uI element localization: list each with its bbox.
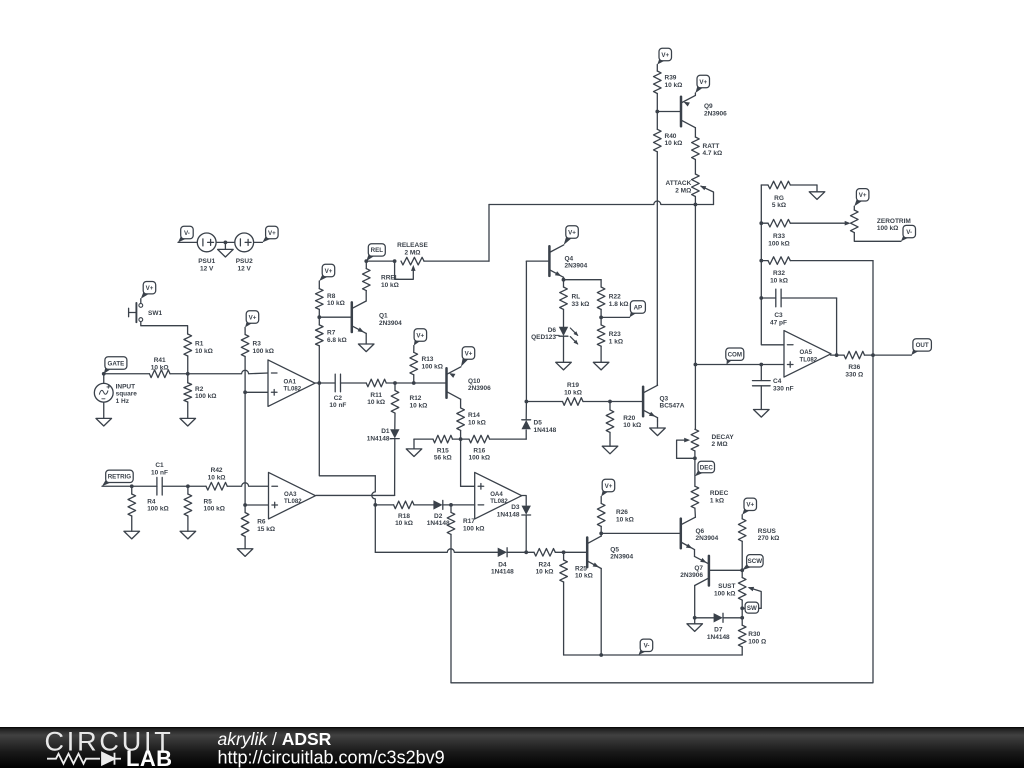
svg-text:10 kΩ: 10 kΩ xyxy=(575,573,593,580)
svg-text:V+: V+ xyxy=(605,483,613,490)
wire xyxy=(140,299,142,304)
svg-text:R8: R8 xyxy=(327,293,336,300)
svg-text:10 kΩ: 10 kΩ xyxy=(564,389,582,396)
wire xyxy=(816,185,818,192)
transistor Q7 2N3906 xyxy=(680,556,709,586)
svg-text:R14: R14 xyxy=(468,412,480,419)
ground xyxy=(687,624,703,632)
svg-text:2 MΩ: 2 MΩ xyxy=(675,187,691,194)
svg-text:D7: D7 xyxy=(714,627,723,634)
wire xyxy=(525,261,527,401)
wire to OA3 inverting input with hop xyxy=(227,483,268,487)
svg-text:ATTACK: ATTACK xyxy=(666,180,692,187)
svg-text:100 kΩ: 100 kΩ xyxy=(195,393,216,400)
svg-text:12 V: 12 V xyxy=(238,266,252,273)
wire xyxy=(563,552,565,560)
node junction xyxy=(562,550,566,554)
svg-text:QED123: QED123 xyxy=(531,334,556,341)
svg-text:D1: D1 xyxy=(381,428,390,435)
resistor R30 100 xyxy=(738,625,766,647)
wire xyxy=(741,570,743,577)
svg-text:DECAY: DECAY xyxy=(712,434,735,441)
wire xyxy=(694,128,696,137)
transistor Q1 2N3904 xyxy=(352,301,402,333)
AP node label xyxy=(630,301,646,318)
resistor R8 10k xyxy=(316,289,345,310)
svg-text:V-: V- xyxy=(184,230,190,237)
wire R17 to feedback rail xyxy=(450,534,452,682)
svg-text:SCW: SCW xyxy=(748,558,763,565)
node junction xyxy=(693,456,697,460)
wire xyxy=(216,241,235,243)
wire xyxy=(694,508,697,517)
svg-text:5 kΩ: 5 kΩ xyxy=(772,202,786,209)
wire xyxy=(187,486,189,494)
potentiometer RELEASE 2M xyxy=(395,242,429,279)
transistor Q6 2N3904 xyxy=(681,517,719,549)
svg-text:V+: V+ xyxy=(416,332,424,339)
svg-text:10 kΩ: 10 kΩ xyxy=(616,516,634,523)
svg-text:R7: R7 xyxy=(327,330,336,337)
svg-text:LAB: LAB xyxy=(126,746,172,768)
svg-text:V-: V- xyxy=(906,229,912,236)
resistor R17 100k xyxy=(447,512,484,534)
wire xyxy=(245,504,268,506)
wire xyxy=(318,281,320,289)
wire R33 to ZEROTRIM wiper xyxy=(790,221,850,226)
wire OA4 + input xyxy=(460,439,462,486)
wire xyxy=(244,505,246,513)
svg-text:DEC: DEC xyxy=(700,464,714,471)
svg-text:10 kΩ: 10 kΩ xyxy=(195,348,213,355)
svg-text:330 Ω: 330 Ω xyxy=(845,371,863,378)
resistor R3 100k xyxy=(241,335,274,357)
node junction xyxy=(393,259,397,263)
ground xyxy=(180,531,196,539)
svg-text:1 kΩ: 1 kΩ xyxy=(710,498,724,505)
wire xyxy=(761,222,768,224)
wire xyxy=(394,383,396,391)
svg-text:R19: R19 xyxy=(567,382,579,389)
resistor R41 10k xyxy=(149,357,170,378)
V- supply flag xyxy=(178,226,193,242)
voltage source INPUT square 1Hz xyxy=(94,383,137,405)
svg-text:10 kΩ: 10 kΩ xyxy=(665,140,683,147)
wire Q4 base xyxy=(526,260,549,262)
wire xyxy=(741,600,743,618)
RETRIG node label xyxy=(102,470,133,486)
svg-text:10 kΩ: 10 kΩ xyxy=(665,82,683,89)
svg-text:R18: R18 xyxy=(398,513,410,520)
wire xyxy=(244,392,246,505)
svg-text:V+: V+ xyxy=(146,285,154,292)
diode D1 1N4148 xyxy=(367,428,400,442)
wire xyxy=(460,399,462,408)
svg-text:R32: R32 xyxy=(773,270,785,277)
svg-text:R16: R16 xyxy=(473,447,485,454)
potentiometer ZEROTRIM 100k xyxy=(851,210,911,233)
wire xyxy=(375,504,393,506)
V+ flag at Q4 xyxy=(564,226,579,245)
wire V- rail xyxy=(564,654,743,656)
wire xyxy=(741,647,743,655)
svg-text:TL082: TL082 xyxy=(490,498,508,505)
resistor R6 15k xyxy=(241,513,275,537)
wire xyxy=(790,184,817,186)
resistor RDEC 1k xyxy=(691,486,729,508)
svg-text:RDEC: RDEC xyxy=(710,490,729,497)
wire xyxy=(600,569,602,656)
svg-text:R3: R3 xyxy=(253,341,262,348)
svg-text:10 kΩ: 10 kΩ xyxy=(410,402,428,409)
svg-text:C2: C2 xyxy=(334,395,343,402)
svg-text:R15: R15 xyxy=(437,447,449,454)
node junction xyxy=(364,259,368,263)
resistor RSUS 270k xyxy=(738,519,779,542)
resistor R39 10k xyxy=(654,71,683,94)
svg-text:R23: R23 xyxy=(609,331,621,338)
svg-text:akrylik / ADSR: akrylik / ADSR xyxy=(218,729,332,749)
node junction xyxy=(449,503,453,507)
wire xyxy=(525,430,527,439)
svg-text:R26: R26 xyxy=(616,509,628,516)
op-amp OA4 TL082 xyxy=(475,472,522,519)
wire xyxy=(507,551,526,553)
wire xyxy=(600,526,602,533)
node junction xyxy=(130,484,134,488)
svg-text:RL: RL xyxy=(572,294,581,301)
wire xyxy=(318,309,320,325)
svg-text:Q3: Q3 xyxy=(660,395,669,402)
wire xyxy=(741,541,743,570)
wire xyxy=(244,537,246,549)
node junction xyxy=(317,381,321,385)
svg-text:RETRIG: RETRIG xyxy=(108,474,132,481)
wire xyxy=(141,322,188,334)
resistor R16 100k xyxy=(469,435,490,461)
svg-text:RATT: RATT xyxy=(703,143,720,150)
wire xyxy=(563,277,565,279)
svg-text:Q9: Q9 xyxy=(704,103,713,110)
svg-text:C4: C4 xyxy=(773,378,782,385)
wire xyxy=(831,354,844,356)
ground xyxy=(96,418,112,426)
V+ flag at RSUS xyxy=(742,498,756,515)
V+ flag at Q10 xyxy=(461,347,475,367)
wire xyxy=(760,386,762,410)
node junction xyxy=(871,353,875,357)
svg-text:100 kΩ: 100 kΩ xyxy=(253,348,274,355)
ground xyxy=(602,446,618,454)
resistor RG 5k xyxy=(768,181,790,209)
resistor R36 330 xyxy=(844,351,865,378)
wire xyxy=(741,618,743,625)
logo resistor-diode glyph xyxy=(47,753,121,765)
svg-text:R30: R30 xyxy=(748,631,760,638)
wire xyxy=(365,333,367,344)
wire xyxy=(187,516,189,531)
svg-text:RSUS: RSUS xyxy=(758,528,777,535)
CircuitLab logo text xyxy=(45,727,174,768)
wire Q6 base xyxy=(601,532,681,534)
svg-text:R42: R42 xyxy=(211,467,223,474)
node junction xyxy=(186,484,190,488)
ground xyxy=(180,418,196,426)
svg-text:33 kΩ: 33 kΩ xyxy=(572,301,590,308)
wire xyxy=(742,607,761,609)
node junction xyxy=(525,400,529,404)
svg-text:100 kΩ: 100 kΩ xyxy=(463,525,484,532)
ground xyxy=(406,449,422,457)
resistor R33 100k xyxy=(768,219,790,247)
V+ supply flag xyxy=(262,226,278,242)
wire xyxy=(760,365,762,381)
svg-text:2N3904: 2N3904 xyxy=(696,535,719,542)
LED D6 QED123 xyxy=(531,327,578,363)
potentiometer DECAY 2M xyxy=(677,429,735,458)
ground xyxy=(593,362,609,370)
wire xyxy=(178,241,197,243)
svg-text:47 pF: 47 pF xyxy=(770,319,787,326)
node junction xyxy=(459,437,463,441)
svg-text:INPUT: INPUT xyxy=(116,383,136,390)
node junction xyxy=(694,363,698,367)
capacitor C3 47pF xyxy=(770,289,787,326)
svg-text:100 kΩ: 100 kΩ xyxy=(204,506,225,513)
wire with hop over R40-Q3 line xyxy=(489,201,714,205)
svg-text:R2: R2 xyxy=(195,386,204,393)
node junction xyxy=(694,203,698,207)
svg-text:R33: R33 xyxy=(773,233,785,240)
svg-text:12 V: 12 V xyxy=(200,266,214,273)
svg-text:1N4148: 1N4148 xyxy=(497,512,520,519)
node junction xyxy=(740,606,744,610)
V+ flag at Q9 xyxy=(695,75,709,93)
svg-text:V+: V+ xyxy=(465,350,473,357)
capacitor C4 330nF xyxy=(753,378,794,392)
wire xyxy=(695,364,784,366)
resistor R26 10k xyxy=(597,503,633,526)
svg-text:V-: V- xyxy=(644,643,650,650)
voltage source PSU2 12V xyxy=(235,233,254,273)
wire xyxy=(695,617,714,619)
node junction xyxy=(693,616,697,620)
svg-text:2 MΩ: 2 MΩ xyxy=(712,441,728,448)
node junction xyxy=(759,363,763,367)
node junction xyxy=(599,316,603,320)
svg-text:10 nF: 10 nF xyxy=(329,402,346,409)
resistor R15 56k xyxy=(433,435,453,461)
node junction xyxy=(373,503,377,507)
switch SW1 xyxy=(129,303,163,322)
wire xyxy=(694,365,696,430)
svg-text:D6: D6 xyxy=(548,327,557,334)
wire xyxy=(555,551,587,553)
node junction xyxy=(524,550,528,554)
capacitor C1 10nF xyxy=(151,462,168,495)
svg-text:100 kΩ: 100 kΩ xyxy=(147,506,168,513)
resistor R23 1k xyxy=(597,325,623,346)
V+ flag at ZEROTRIM xyxy=(854,189,869,207)
svg-text:C1: C1 xyxy=(155,462,164,469)
resistor R13 100k xyxy=(410,352,443,375)
wire xyxy=(162,485,188,487)
svg-text:TL082: TL082 xyxy=(800,356,818,363)
node junction xyxy=(243,503,247,507)
svg-text:Q10: Q10 xyxy=(468,378,481,385)
svg-text:10 kΩ: 10 kΩ xyxy=(468,419,486,426)
wire xyxy=(386,382,446,384)
svg-text:V+: V+ xyxy=(249,314,257,321)
potentiometer SUST 100k xyxy=(714,578,761,609)
op-amp OA1 TL082 xyxy=(268,360,315,407)
wire to OA1 inverting input with hop xyxy=(188,370,268,373)
wire xyxy=(341,382,367,384)
diode D2 1N4148 xyxy=(427,500,450,527)
svg-text:6.8 kΩ: 6.8 kΩ xyxy=(327,337,347,344)
wire xyxy=(414,438,433,440)
svg-text:SW1: SW1 xyxy=(148,310,162,317)
wire xyxy=(413,375,415,383)
node junction xyxy=(599,532,603,536)
wire OA3 output to D1 xyxy=(316,494,395,496)
wire xyxy=(365,291,367,301)
svg-text:ZEROTRIM: ZEROTRIM xyxy=(877,218,911,225)
node junction xyxy=(835,353,839,357)
svg-text:1N4148: 1N4148 xyxy=(427,520,450,527)
node junction xyxy=(740,568,744,572)
wire xyxy=(132,485,157,487)
wire xyxy=(104,373,150,375)
wire xyxy=(761,260,768,262)
svg-text:D4: D4 xyxy=(498,561,507,568)
wire xyxy=(600,346,602,362)
wire xyxy=(741,515,743,519)
DEC node label xyxy=(695,461,715,476)
V+ flag at R26 xyxy=(601,479,615,496)
V+ flag at R3 xyxy=(245,311,259,328)
node junction xyxy=(243,390,247,394)
svg-text:REL: REL xyxy=(371,247,384,254)
transistor Q3 BC547A xyxy=(643,385,685,417)
node junction xyxy=(740,616,744,620)
resistor R19 10k xyxy=(563,382,584,405)
svg-text:270 kΩ: 270 kΩ xyxy=(758,535,779,542)
GATE node label xyxy=(104,357,127,374)
svg-text:2N3906: 2N3906 xyxy=(680,572,703,579)
svg-text:Q6: Q6 xyxy=(696,528,705,535)
resistor R2 100k xyxy=(184,383,217,402)
svg-text:R20: R20 xyxy=(623,415,635,422)
svg-text:V+: V+ xyxy=(661,52,669,59)
wire xyxy=(761,184,768,186)
svg-text:10 kΩ: 10 kΩ xyxy=(770,277,788,284)
wire xyxy=(224,242,226,249)
wire xyxy=(365,261,367,269)
wire xyxy=(460,430,462,439)
wire xyxy=(836,298,838,355)
ground xyxy=(809,192,825,200)
wire xyxy=(854,233,901,242)
wire xyxy=(443,504,475,506)
svg-text:2 MΩ: 2 MΩ xyxy=(404,249,420,256)
svg-text:10 kΩ: 10 kΩ xyxy=(151,364,169,371)
wire xyxy=(187,402,189,418)
transistor Q4 2N3904 xyxy=(549,245,587,277)
wire xyxy=(609,402,611,410)
transistor Q10 2N3906 xyxy=(447,367,492,399)
svg-text:100 kΩ: 100 kΩ xyxy=(714,590,735,597)
resistor R12 10k xyxy=(391,391,427,414)
wire xyxy=(677,457,695,459)
wire xyxy=(790,260,873,262)
SW node label xyxy=(742,602,758,613)
svg-text:R36: R36 xyxy=(848,364,860,371)
svg-text:V+: V+ xyxy=(325,268,333,275)
svg-text:PSU2: PSU2 xyxy=(236,258,253,265)
svg-text:R13: R13 xyxy=(422,356,434,363)
wire xyxy=(525,402,527,420)
node junction xyxy=(317,315,321,319)
wire feedback loop xyxy=(451,261,873,683)
svg-text:1N4148: 1N4148 xyxy=(367,436,390,443)
ground xyxy=(218,249,234,257)
resistor R11 10k xyxy=(366,379,386,406)
resistor R4 100k xyxy=(128,494,169,516)
svg-text:R40: R40 xyxy=(665,133,677,140)
resistor RATT 4.7k xyxy=(692,137,723,160)
ground xyxy=(556,362,572,370)
svg-text:SUST: SUST xyxy=(718,583,735,590)
svg-text:4.7 kΩ: 4.7 kΩ xyxy=(703,150,723,157)
wire xyxy=(865,354,912,356)
wire xyxy=(525,515,527,552)
diode D4 1N4148 xyxy=(491,548,514,576)
svg-text:R24: R24 xyxy=(539,561,551,568)
wire xyxy=(694,618,696,624)
resistor R24 10k xyxy=(534,549,555,576)
svg-text:100 Ω: 100 Ω xyxy=(748,638,766,645)
svg-text:10 kΩ: 10 kΩ xyxy=(395,520,413,527)
svg-text:V+: V+ xyxy=(746,502,754,509)
svg-text:100 kΩ: 100 kΩ xyxy=(422,363,443,370)
svg-text:100 kΩ: 100 kΩ xyxy=(877,225,898,232)
resistor R22 1.8k xyxy=(597,287,628,309)
ground xyxy=(650,428,666,436)
svg-text:PSU1: PSU1 xyxy=(198,258,215,265)
node junction xyxy=(393,381,397,385)
svg-text:Q4: Q4 xyxy=(565,255,574,262)
svg-text:2N3904: 2N3904 xyxy=(610,554,633,561)
svg-text:D5: D5 xyxy=(534,420,543,427)
wire with hop over R17 line xyxy=(375,549,497,553)
capacitor C2 10nF xyxy=(329,374,346,409)
svg-text:R4: R4 xyxy=(147,498,156,505)
node junction xyxy=(599,653,603,657)
wire xyxy=(488,205,490,262)
transistor Q5 2N3904 xyxy=(587,536,633,568)
wire Q9 base xyxy=(657,111,681,113)
wire xyxy=(600,309,602,325)
op-amp OA5 TL082 xyxy=(784,331,831,378)
V- flag at rail xyxy=(639,639,653,655)
ground xyxy=(237,549,253,557)
svg-text:RELEASE: RELEASE xyxy=(397,242,428,249)
wire xyxy=(761,297,776,299)
svg-text:1N4148: 1N4148 xyxy=(534,427,557,434)
wire xyxy=(413,346,415,353)
svg-text:10 nF: 10 nF xyxy=(151,469,168,476)
